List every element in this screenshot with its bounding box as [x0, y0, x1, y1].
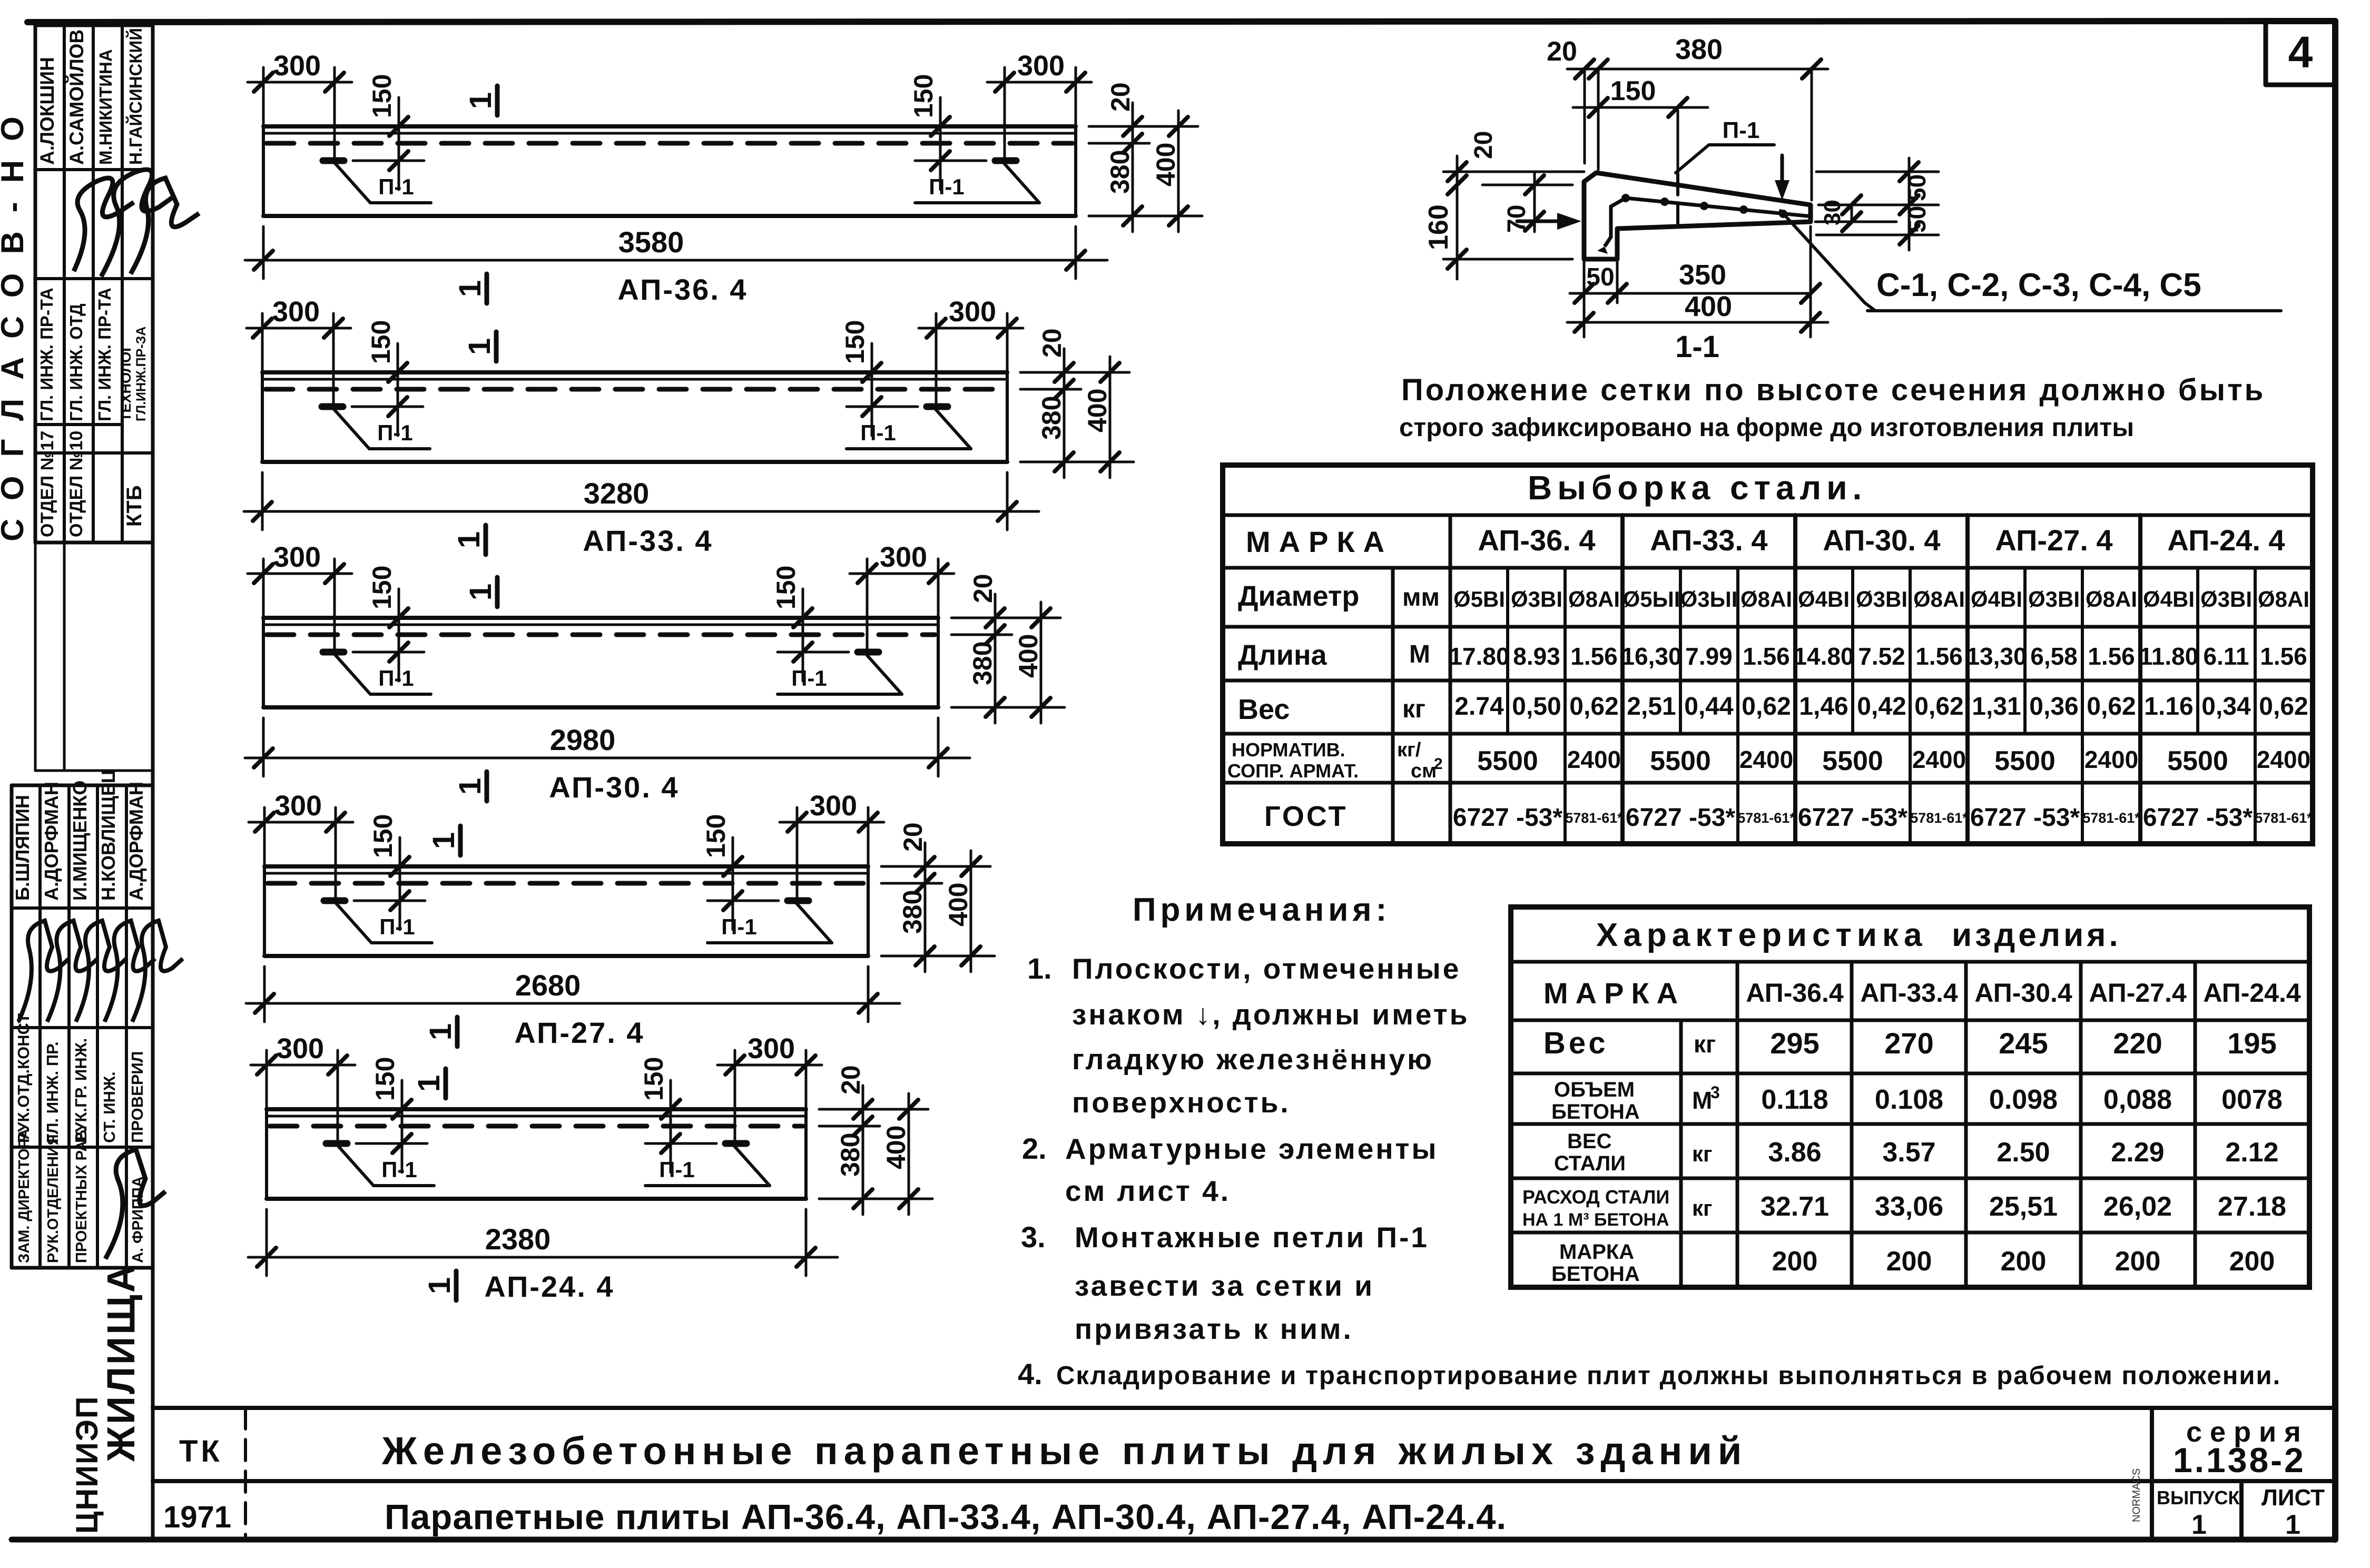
svg-text:А.ЛОКШИН: А.ЛОКШИН — [36, 57, 58, 165]
svg-text:245: 245 — [1999, 1027, 2048, 1060]
height dimensions 20-380-400 АП-36. 4 — [1089, 125, 1198, 128]
svg-text:0,62: 0,62 — [1569, 693, 1618, 721]
height dimensions 20-380-400 АП-24. 4 — [819, 1108, 928, 1111]
svg-text:150: 150 — [639, 1057, 668, 1101]
svg-text:Длина: Длина — [1238, 639, 1327, 671]
svg-text:мм: мм — [1402, 584, 1440, 612]
svg-text:2380: 2380 — [485, 1222, 551, 1256]
mesh marks С-1...С-5 leader — [1781, 211, 1865, 303]
svg-text:50: 50 — [1903, 174, 1931, 201]
svg-text:1: 1 — [464, 92, 498, 109]
П-1 label left АП-30. 4 — [335, 655, 370, 694]
mesh line (dashed) АП-24. 4 — [270, 1124, 803, 1129]
svg-text:300: 300 — [273, 541, 321, 573]
П-1 label right АП-24. 4 — [734, 1146, 770, 1186]
svg-text:150: 150 — [370, 1057, 400, 1101]
svg-text:2400: 2400 — [1739, 746, 1793, 773]
svg-text:400: 400 — [1014, 634, 1043, 678]
svg-text:20: 20 — [898, 822, 928, 852]
svg-text:Складирование и транспортирова: Складирование и транспортирование плит д… — [1056, 1362, 2281, 1390]
svg-text:3: 3 — [1710, 1083, 1720, 1102]
svg-text:150: 150 — [367, 74, 397, 118]
svg-text:П-1: П-1 — [791, 666, 827, 691]
dimension 50 bottom of section — [1583, 259, 1586, 337]
svg-text:7.52: 7.52 — [1858, 643, 1905, 670]
svg-text:0,36: 0,36 — [2029, 693, 2078, 721]
svg-text:Ø8АI: Ø8АI — [2258, 587, 2309, 612]
sheet number box 4 — [2266, 22, 2335, 85]
svg-text:1: 1 — [427, 832, 461, 849]
svg-text:70: 70 — [1503, 205, 1531, 233]
svg-text:П-1: П-1 — [929, 174, 965, 199]
dimension 150 left АП-33. 4 — [397, 343, 399, 436]
lifting loop П-1 right tick АП-33. 4 — [927, 403, 948, 410]
svg-text:АП-36.4: АП-36.4 — [1746, 978, 1844, 1008]
svg-text:ГЛ. ИНЖ. ОТД: ГЛ. ИНЖ. ОТД — [66, 303, 86, 421]
svg-text:1: 1 — [424, 1023, 458, 1040]
svg-text:11.80: 11.80 — [2139, 643, 2199, 670]
slab outline АП-30. 4 — [263, 616, 938, 620]
svg-text:2.50: 2.50 — [1997, 1137, 2050, 1168]
svg-text:СТ. ИНЖ.: СТ. ИНЖ. — [100, 1071, 119, 1143]
lifting loop П-1 left tick АП-27. 4 — [324, 898, 345, 904]
svg-text:привязать к ним.: привязать к ним. — [1075, 1313, 1353, 1345]
svg-text:Плоскости, отмеченные: Плоскости, отмеченные — [1072, 952, 1461, 985]
svg-text:5500: 5500 — [1650, 746, 1711, 776]
table Выборка стали — [1223, 465, 2313, 844]
svg-text:5781-61*: 5781-61* — [2082, 810, 2140, 826]
mesh line (dashed) АП-27. 4 — [268, 881, 865, 886]
svg-text:3.57: 3.57 — [1882, 1137, 1935, 1168]
svg-text:300: 300 — [810, 790, 857, 822]
height dimensions 20-380-400 АП-33. 4 — [1020, 371, 1129, 374]
svg-text:ОБЪЕМ: ОБЪЕМ — [1554, 1078, 1635, 1101]
cross-section detail 1-1 — [1423, 34, 2281, 364]
svg-text:РУК.ОТД.КОНСТ: РУК.ОТД.КОНСТ — [14, 1013, 33, 1143]
svg-text:П-1: П-1 — [659, 1157, 695, 1182]
svg-text:ПРОЕКТНЫХ РАБ.: ПРОЕКТНЫХ РАБ. — [73, 1126, 90, 1263]
svg-text:2400: 2400 — [1567, 746, 1621, 773]
svg-text:ПРОВЕРИЛ: ПРОВЕРИЛ — [128, 1051, 146, 1143]
svg-text:НА 1 М³ БЕТОНА: НА 1 М³ БЕТОНА — [1522, 1210, 1669, 1230]
lifting loop П-1 left tick АП-30. 4 — [323, 649, 344, 656]
svg-text:Ø8АI: Ø8АI — [1740, 587, 1792, 612]
svg-text:50: 50 — [1903, 206, 1931, 233]
svg-text:0,62: 0,62 — [2087, 693, 2136, 721]
svg-text:380: 380 — [835, 1133, 865, 1177]
dimension 300 right АП-30. 4 — [937, 559, 940, 618]
approval stamp block 2 (исполнители) — [12, 543, 183, 1268]
svg-text:Железобетонные парапетные: Железобетонные парапетные плиты для жилы… — [381, 1429, 1747, 1473]
dimension 300 left АП-30. 4 — [262, 559, 265, 618]
lifting loop П-1 left tick АП-24. 4 — [326, 1140, 347, 1147]
svg-text:200: 200 — [1772, 1246, 1818, 1277]
svg-text:20: 20 — [968, 574, 998, 603]
svg-text:И.МИЩЕНКО: И.МИЩЕНКО — [69, 781, 91, 901]
svg-text:Ø8АI: Ø8АI — [1913, 587, 1965, 612]
svg-text:Н.КОВЛИЩЕЦ: Н.КОВЛИЩЕЦ — [97, 769, 119, 901]
svg-text:Ø3ЫI: Ø3ЫI — [1680, 587, 1738, 612]
svg-text:8.93: 8.93 — [1513, 643, 1560, 670]
svg-text:А.ДОРФМАН: А.ДОРФМАН — [125, 782, 147, 901]
svg-text:4.: 4. — [1018, 1357, 1043, 1391]
dimension 150 on section — [1573, 106, 1708, 109]
overall dimension 2680 АП-27. 4 — [263, 967, 266, 1022]
ЦНИИЭП ЖИЛИЩА vertical institute name — [70, 1263, 143, 1534]
svg-text:32.71: 32.71 — [1761, 1191, 1829, 1222]
svg-text:1.56: 1.56 — [1570, 643, 1618, 670]
svg-text:220: 220 — [2113, 1027, 2162, 1060]
svg-text:150: 150 — [771, 566, 801, 609]
note: mesh position text — [1399, 373, 2265, 442]
mesh С-1..С-5 in section — [1605, 198, 1812, 246]
svg-text:1.56: 1.56 — [2088, 643, 2135, 670]
svg-text:1: 1 — [453, 280, 487, 297]
svg-text:5500: 5500 — [1994, 746, 2056, 776]
svg-text:300: 300 — [273, 50, 321, 82]
svg-text:50: 50 — [1586, 263, 1614, 291]
svg-text:АП-27.4: АП-27.4 — [2089, 978, 2187, 1008]
svg-text:АП-33.4: АП-33.4 — [1860, 978, 1958, 1008]
dimension 300 right АП-24. 4 — [805, 1050, 808, 1109]
svg-text:6727 -53*: 6727 -53* — [1970, 804, 2080, 832]
svg-text:Б.ШЛЯПИН: Б.ШЛЯПИН — [12, 795, 33, 901]
svg-text:П-1: П-1 — [1723, 117, 1760, 143]
svg-text:0,62: 0,62 — [2259, 693, 2308, 721]
svg-text:16,30: 16,30 — [1621, 643, 1681, 670]
svg-text:БЕТОНА: БЕТОНА — [1551, 1100, 1640, 1123]
svg-text:150: 150 — [701, 814, 731, 858]
svg-text:6,58: 6,58 — [2030, 643, 2078, 670]
slab outline АП-27. 4 — [264, 864, 868, 869]
dimension 150 left АП-36. 4 — [398, 97, 400, 190]
lifting loop П-1 right tick АП-30. 4 — [858, 649, 879, 656]
svg-text:Парапетные плиты АП-36.4,: Парапетные плиты АП-36.4, АП-33.4, АП-30… — [385, 1497, 1507, 1537]
svg-text:1-1: 1-1 — [1675, 330, 1719, 364]
svg-text:МАРКА: МАРКА — [1543, 977, 1685, 1010]
svg-text:КТБ: КТБ — [123, 485, 146, 527]
dimension 150 right АП-24. 4 — [670, 1080, 672, 1172]
svg-text:150: 150 — [367, 566, 397, 609]
svg-text:150: 150 — [909, 74, 938, 118]
section view arrow — [1517, 220, 1570, 223]
svg-text:ВЕС: ВЕС — [1567, 1130, 1611, 1153]
svg-text:300: 300 — [277, 1033, 324, 1064]
svg-text:П-1: П-1 — [860, 420, 896, 445]
svg-text:МАРКА: МАРКА — [1246, 525, 1393, 558]
svg-text:1,46: 1,46 — [1799, 693, 1848, 721]
svg-text:0,62: 0,62 — [1742, 693, 1791, 721]
svg-text:Вес: Вес — [1238, 694, 1290, 725]
lifting loop П-1 left tick АП-33. 4 — [322, 403, 343, 410]
svg-text:СТАЛИ: СТАЛИ — [1554, 1152, 1626, 1175]
overall dimension 3580 АП-36. 4 — [262, 226, 265, 279]
svg-text:АП-36. 4: АП-36. 4 — [617, 273, 748, 306]
mesh line (dashed) АП-36. 4 — [267, 141, 1073, 146]
П-1 label right АП-30. 4 — [867, 655, 902, 694]
svg-text:Вес: Вес — [1543, 1026, 1609, 1060]
svg-text:150: 150 — [368, 814, 398, 858]
svg-text:400: 400 — [1685, 291, 1732, 322]
svg-text:Ø4ВI: Ø4ВI — [1798, 587, 1850, 612]
svg-text:ЖИЛИЩА: ЖИЛИЩА — [99, 1263, 143, 1462]
svg-text:см: см — [1411, 760, 1437, 782]
svg-text:П-1: П-1 — [721, 914, 757, 939]
svg-text:Ø8АI: Ø8АI — [1568, 587, 1620, 612]
svg-text:1: 1 — [412, 1075, 446, 1092]
svg-text:13,30: 13,30 — [1966, 643, 2027, 670]
svg-text:строго зафиксировано на форме: строго зафиксировано на форме до изготов… — [1399, 413, 2134, 442]
svg-text:400: 400 — [943, 883, 973, 926]
svg-text:знаком ↓, должны иметь: знаком ↓, должны иметь — [1072, 998, 1470, 1031]
svg-text:30: 30 — [1820, 200, 1845, 225]
svg-text:1.138-2: 1.138-2 — [2173, 1441, 2306, 1480]
П-1 label left АП-27. 4 — [336, 903, 371, 943]
svg-text:кг: кг — [1694, 1030, 1716, 1058]
svg-text:0,34: 0,34 — [2201, 693, 2251, 721]
svg-text:5781-61*: 5781-61* — [1565, 810, 1623, 826]
svg-text:14.80: 14.80 — [1793, 643, 1854, 670]
svg-text:17.80: 17.80 — [1449, 643, 1509, 670]
svg-text:Монтажные петли П-1: Монтажные петли П-1 — [1075, 1221, 1429, 1254]
svg-text:изделия.: изделия. — [1952, 917, 2121, 953]
title block — [153, 1408, 2335, 1540]
svg-text:20: 20 — [1037, 328, 1067, 358]
П-1 label left АП-36. 4 — [335, 163, 370, 203]
section mark 1 upper АП-30. 4 — [495, 577, 500, 607]
svg-text:Арматурные элементы: Арматурные элементы — [1065, 1132, 1438, 1165]
svg-text:РАСХОД СТАЛИ: РАСХОД СТАЛИ — [1522, 1186, 1669, 1208]
mesh line (dashed) АП-33. 4 — [265, 387, 1004, 392]
svg-text:200: 200 — [2115, 1246, 2161, 1277]
notes Примечания — [1018, 892, 2281, 1391]
svg-text:ГЛ. ИНЖ. ПР-ТА: ГЛ. ИНЖ. ПР-ТА — [37, 288, 56, 421]
svg-text:Ø3ВI: Ø3ВI — [2200, 587, 2252, 612]
svg-text:1.16: 1.16 — [2144, 693, 2193, 721]
svg-text:Положение сетки по высоте сече: Положение сетки по высоте сечения должно… — [1401, 373, 2265, 407]
svg-text:0.118: 0.118 — [1761, 1084, 1828, 1115]
svg-text:380: 380 — [968, 642, 997, 685]
svg-text:ЛИСТ: ЛИСТ — [2261, 1485, 2325, 1511]
svg-text:20: 20 — [836, 1065, 866, 1094]
svg-text:ВЫПУСК: ВЫПУСК — [2157, 1487, 2240, 1508]
svg-text:2400: 2400 — [2257, 746, 2310, 773]
svg-text:АП-30.4: АП-30.4 — [1974, 978, 2072, 1008]
svg-text:Н.ГАЙСИНСКИЙ: Н.ГАЙСИНСКИЙ — [125, 28, 145, 165]
parapet slab elevation АП-36. 4 — [245, 50, 1202, 306]
svg-text:АП-27. 4: АП-27. 4 — [1995, 524, 2112, 557]
section mark 1 lower АП-27. 4 — [455, 1017, 460, 1047]
svg-text:150: 150 — [1610, 76, 1656, 106]
svg-text:Характеристика: Характеристика — [1596, 917, 1928, 953]
svg-text:1971: 1971 — [163, 1500, 231, 1534]
mesh line (dashed) АП-30. 4 — [267, 633, 935, 637]
svg-text:2.: 2. — [1022, 1132, 1047, 1165]
dimensions 30-50-50 right of section — [1816, 171, 1939, 173]
svg-text:3580: 3580 — [618, 225, 684, 259]
svg-text:1.56: 1.56 — [1743, 643, 1790, 670]
svg-text:ГЛ.ИНЖ.ПР-ЗА: ГЛ.ИНЖ.ПР-ЗА — [134, 327, 149, 421]
svg-text:Ø3ВI: Ø3ВI — [2028, 587, 2080, 612]
svg-text:300: 300 — [274, 790, 322, 822]
svg-text:АП-36. 4: АП-36. 4 — [1478, 524, 1595, 557]
overall dimension 3280 АП-33. 4 — [261, 472, 264, 530]
section mark 1 upper АП-33. 4 — [494, 332, 499, 361]
П-1 label right АП-33. 4 — [936, 409, 971, 449]
svg-text:27.18: 27.18 — [2218, 1191, 2286, 1222]
svg-text:20: 20 — [1547, 36, 1577, 67]
svg-text:ГЛ. ИНЖ. ПР-ТА: ГЛ. ИНЖ. ПР-ТА — [95, 288, 114, 421]
svg-text:400: 400 — [1151, 143, 1181, 186]
svg-text:П-1: П-1 — [379, 914, 415, 939]
lifting loop П-1 right tick АП-36. 4 — [995, 157, 1016, 164]
svg-text:кг: кг — [1402, 695, 1425, 723]
height dimensions 20-380-400 АП-27. 4 — [881, 865, 990, 868]
svg-text:кг/: кг/ — [1397, 739, 1421, 761]
svg-text:1: 1 — [422, 1277, 457, 1294]
svg-text:1: 1 — [463, 338, 497, 355]
svg-text:2.29: 2.29 — [2111, 1137, 2164, 1168]
svg-text:А.ДОРФМАН: А.ДОРФМАН — [41, 782, 62, 901]
svg-text:3280: 3280 — [584, 477, 650, 510]
dimension 300 left АП-27. 4 — [263, 807, 266, 866]
slab outline АП-33. 4 — [262, 370, 1007, 374]
svg-text:1.: 1. — [1027, 952, 1052, 985]
svg-text:Диаметр: Диаметр — [1238, 580, 1359, 612]
table Характеристика изделия — [1511, 907, 2309, 1287]
svg-text:380: 380 — [1675, 34, 1723, 65]
svg-text:1,31: 1,31 — [1972, 693, 2021, 721]
dimensions 20-70-160 left of section — [1443, 171, 1584, 173]
svg-text:2: 2 — [1434, 755, 1443, 773]
overall dimension 2980 АП-30. 4 — [262, 718, 265, 776]
П-1 label on section — [1676, 145, 1709, 173]
svg-text:БЕТОНА: БЕТОНА — [1551, 1263, 1640, 1286]
svg-text:0078: 0078 — [2221, 1084, 2283, 1115]
svg-text:2980: 2980 — [550, 723, 616, 756]
svg-text:300: 300 — [949, 296, 996, 328]
parapet slab elevation АП-27. 4 — [246, 790, 995, 1049]
svg-text:АП-33. 4: АП-33. 4 — [1650, 524, 1767, 557]
svg-text:РУК.ОТДЕЛЕНИЯ: РУК.ОТДЕЛЕНИЯ — [45, 1134, 62, 1263]
svg-text:МАРКА: МАРКА — [1559, 1240, 1634, 1264]
section mark 1 upper АП-27. 4 — [458, 826, 463, 855]
svg-text:М: М — [1409, 640, 1430, 668]
svg-text:завести за сетки и: завести за сетки и — [1075, 1269, 1374, 1302]
loop П-1 axis in section — [1677, 111, 1679, 174]
svg-text:ЗАМ. ДИРЕКТОРА: ЗАМ. ДИРЕКТОРА — [16, 1129, 33, 1263]
lifting loop П-1 right tick АП-27. 4 — [788, 898, 809, 904]
svg-text:400: 400 — [1083, 389, 1112, 432]
svg-text:1.56: 1.56 — [1915, 643, 1963, 670]
section mark 1 lower АП-36. 4 — [485, 274, 489, 303]
svg-text:2400: 2400 — [1912, 746, 1966, 773]
svg-text:0,62: 0,62 — [1914, 693, 1963, 721]
dimension 150 left АП-27. 4 — [399, 837, 401, 930]
parapet slab elevation АП-30. 4 — [245, 541, 1065, 804]
svg-text:380: 380 — [1037, 396, 1066, 440]
lifting loop П-1 left tick АП-36. 4 — [323, 157, 344, 164]
section profile outline — [1584, 173, 1811, 259]
svg-text:0.108: 0.108 — [1875, 1084, 1943, 1115]
svg-text:см лист 4.: см лист 4. — [1065, 1175, 1231, 1207]
svg-text:Ø3ВI: Ø3ВI — [1856, 587, 1907, 612]
dimension 300 left АП-36. 4 — [262, 67, 265, 126]
dimension 20 and 380 top of section — [1584, 69, 1586, 163]
svg-text:200: 200 — [2229, 1246, 2275, 1277]
svg-text:300: 300 — [748, 1033, 795, 1064]
svg-text:200: 200 — [1886, 1246, 1932, 1277]
svg-text:П-1: П-1 — [378, 174, 414, 199]
section mark 1 upper АП-24. 4 — [444, 1069, 448, 1098]
svg-text:гладкую железнённую: гладкую железнённую — [1072, 1043, 1434, 1076]
svg-text:2,51: 2,51 — [1627, 693, 1676, 721]
svg-text:295: 295 — [1770, 1027, 1819, 1060]
П-1 label left АП-24. 4 — [338, 1146, 373, 1186]
svg-text:П-1: П-1 — [377, 420, 413, 445]
svg-text:0,088: 0,088 — [2103, 1084, 2172, 1115]
dimension 300 right АП-27. 4 — [867, 807, 870, 866]
dimension 300 left АП-24. 4 — [265, 1050, 268, 1109]
svg-text:195: 195 — [2227, 1027, 2276, 1060]
svg-text:Ø3ВI: Ø3ВI — [1511, 587, 1562, 612]
svg-text:Ø5ЫI: Ø5ЫI — [1623, 587, 1680, 612]
svg-text:1: 1 — [2191, 1510, 2207, 1540]
svg-text:ОТДЕЛ №17: ОТДЕЛ №17 — [37, 431, 57, 537]
svg-text:А.САМОЙЛОВ: А.САМОЙЛОВ — [65, 29, 87, 165]
svg-text:0,50: 0,50 — [1512, 693, 1561, 721]
dimension 400 bottom of section — [1567, 321, 1828, 324]
svg-text:150: 150 — [366, 320, 396, 364]
svg-text:2.12: 2.12 — [2225, 1137, 2278, 1168]
svg-text:АП-33. 4: АП-33. 4 — [583, 524, 713, 557]
section mark 1 upper АП-36. 4 — [495, 86, 500, 115]
svg-text:АП-30. 4: АП-30. 4 — [549, 771, 679, 804]
surface finish arrow — [1781, 155, 1784, 191]
svg-text:1.56: 1.56 — [2260, 643, 2307, 670]
svg-text:АП-24.4: АП-24.4 — [2203, 978, 2301, 1008]
svg-text:0.098: 0.098 — [1989, 1084, 2058, 1115]
dimension 300 left АП-33. 4 — [261, 313, 264, 372]
dimension 150 right АП-33. 4 — [871, 343, 873, 436]
svg-text:33,06: 33,06 — [1875, 1191, 1943, 1222]
slab outline АП-36. 4 — [263, 124, 1076, 129]
section mark 1 lower АП-24. 4 — [454, 1271, 459, 1300]
svg-text:2400: 2400 — [2084, 746, 2138, 773]
svg-text:300: 300 — [272, 296, 320, 328]
svg-text:Выборка стали.: Выборка стали. — [1528, 469, 1867, 507]
dimension 150 right АП-30. 4 — [802, 589, 804, 681]
svg-text:поверхность.: поверхность. — [1072, 1086, 1291, 1119]
svg-text:380: 380 — [898, 890, 927, 934]
svg-text:300: 300 — [880, 541, 927, 573]
slab outline АП-24. 4 — [267, 1107, 806, 1111]
svg-text:200: 200 — [2001, 1246, 2047, 1277]
svg-text:6727 -53*: 6727 -53* — [1626, 804, 1735, 832]
height dimensions 20-380-400 АП-30. 4 — [951, 617, 1060, 619]
svg-text:1: 1 — [464, 584, 498, 600]
svg-text:Ø4ВI: Ø4ВI — [2143, 587, 2195, 612]
dimension 150 left АП-30. 4 — [398, 589, 400, 681]
svg-text:160: 160 — [1423, 204, 1454, 250]
approval stamp block 1 (СОГЛАСОВАНО) — [35, 25, 199, 543]
svg-text:П-1: П-1 — [378, 666, 414, 691]
svg-text:СОПР. АРМАТ.: СОПР. АРМАТ. — [1227, 760, 1359, 782]
svg-text:270: 270 — [1884, 1027, 1933, 1060]
dimension 300 right АП-36. 4 — [1075, 67, 1077, 126]
svg-text:Примечания:: Примечания: — [1133, 892, 1391, 928]
svg-text:26,02: 26,02 — [2103, 1191, 2172, 1222]
